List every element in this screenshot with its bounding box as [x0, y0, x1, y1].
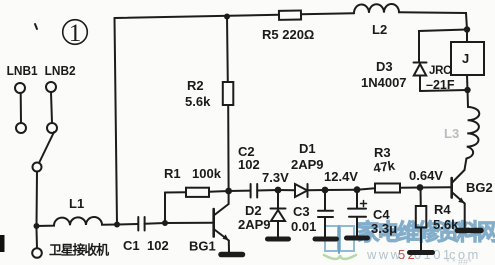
- transistor BG1: [165, 191, 229, 252]
- resistor R3 with wires: [357, 184, 420, 193]
- receiver terminal: [32, 229, 42, 258]
- svg-text:C3: C3: [293, 204, 310, 219]
- svg-text:L3: L3: [444, 126, 459, 141]
- diode D3: [414, 63, 427, 92]
- LNB1 connector: [15, 83, 26, 133]
- svg-text:0.64V: 0.64V: [409, 168, 443, 183]
- transistor BG2: [420, 170, 465, 228]
- svg-text:12.4V: 12.4V: [324, 169, 358, 184]
- stray tick mark: [35, 24, 37, 29]
- svg-text:L2: L2: [372, 22, 387, 37]
- node C relay top junction: [464, 26, 470, 32]
- svg-text:R1: R1: [164, 166, 181, 181]
- inductor L2: [354, 4, 399, 13]
- svg-text:3.3μ: 3.3μ: [371, 221, 397, 236]
- circled figure number 1: [63, 20, 88, 47]
- svg-text:J: J: [462, 51, 469, 66]
- svg-text:2AP9: 2AP9: [238, 217, 271, 232]
- svg-text:R4: R4: [434, 202, 451, 217]
- node B junction (L1 / C1 / left vertical): [114, 222, 120, 228]
- wire switch down to node A: [36, 172, 39, 227]
- svg-text:L1: L1: [69, 196, 84, 211]
- svg-text:JRC: JRC: [429, 65, 451, 77]
- svg-text:D1: D1: [299, 141, 316, 156]
- svg-text:7.3V: 7.3V: [262, 170, 289, 185]
- node A junction: [34, 223, 40, 229]
- node H (7.3V junction): [275, 187, 282, 194]
- node I (C3 junction): [322, 187, 329, 194]
- wire node B to C1: [117, 223, 138, 226]
- svg-text:2AP9: 2AP9: [291, 157, 324, 172]
- svg-text:5.6k: 5.6k: [185, 94, 211, 109]
- svg-text:1: 1: [69, 20, 82, 47]
- diode D1 with wires: [278, 184, 325, 197]
- svg-text:C1: C1: [123, 238, 140, 253]
- svg-text:D3: D3: [376, 59, 393, 74]
- resistor R2 with wires: [223, 17, 234, 192]
- svg-text:R2: R2: [187, 78, 204, 93]
- LNB2 connector: [46, 82, 57, 133]
- svg-text:1N4007: 1N4007: [361, 75, 407, 90]
- resistor R5: [279, 11, 301, 20]
- ground (R4): [410, 250, 433, 255]
- faint cut-off text bottom right: [446, 257, 472, 265]
- resistor R4 with wires and ground: [416, 188, 427, 251]
- wire L3 to BG2 collector: [465, 159, 467, 171]
- switch arm: [33, 132, 55, 172]
- node E (R2 top junction): [224, 14, 230, 20]
- ground (C4): [347, 236, 368, 241]
- svg-text:D2: D2: [245, 203, 262, 218]
- wire top horizontal: [115, 15, 280, 18]
- svg-text:47k: 47k: [372, 158, 396, 176]
- inductor L1: [37, 217, 118, 226]
- watermark url www.520101.com: [366, 247, 481, 262]
- wire R5 to L2: [301, 13, 354, 14]
- ground (BG1 emitter): [221, 252, 243, 258]
- ground (BG2 emitter): [458, 228, 482, 234]
- svg-text:100k: 100k: [192, 166, 222, 181]
- capacitor C3 with ground: [318, 190, 333, 237]
- wire I to J2: [325, 189, 357, 191]
- node F (collector junction): [225, 188, 232, 195]
- capacitor C1: [138, 217, 165, 231]
- relay J coil box: [451, 30, 484, 91]
- node K (0.64V junction): [417, 184, 424, 191]
- wire relay branch top: [419, 30, 467, 63]
- svg-text:102: 102: [238, 157, 260, 172]
- diode D2 with ground: [271, 190, 286, 237]
- svg-text:102: 102: [147, 238, 169, 253]
- svg-text:BG2: BG2: [466, 180, 493, 195]
- svg-text:* * ##*: * * ##*: [446, 257, 472, 265]
- ground (C3): [315, 237, 337, 242]
- node G (base junction): [162, 220, 168, 226]
- watermark book icon: [324, 226, 356, 259]
- wire left vertical: [115, 18, 118, 225]
- svg-text:C4: C4: [373, 207, 390, 222]
- inductor L3: [466, 90, 479, 159]
- wire D3 bottom to relay bottom: [420, 90, 467, 91]
- ground (D2): [268, 237, 289, 242]
- svg-text:卫星接收机: 卫星接收机: [49, 243, 109, 258]
- svg-text:R5 220Ω: R5 220Ω: [262, 27, 314, 42]
- svg-text:LNB1: LNB1: [7, 64, 38, 78]
- node J2 (C4 junction): [354, 186, 361, 193]
- capacitor C2 with wires: [229, 184, 278, 198]
- capacitor C4 (electrolytic) with ground: [348, 190, 367, 236]
- resistor R1 with wires: [165, 188, 229, 223]
- svg-text:BG1: BG1: [189, 239, 216, 254]
- wire L2 to right corner: [399, 12, 467, 29]
- node D relay bottom junction: [464, 87, 470, 93]
- svg-text:–21F: –21F: [426, 78, 455, 92]
- svg-text:LNB2: LNB2: [45, 64, 76, 78]
- JRC-21F label: [426, 65, 455, 92]
- svg-text:0.01: 0.01: [291, 219, 316, 234]
- connector stub at left edge: [0, 235, 5, 252]
